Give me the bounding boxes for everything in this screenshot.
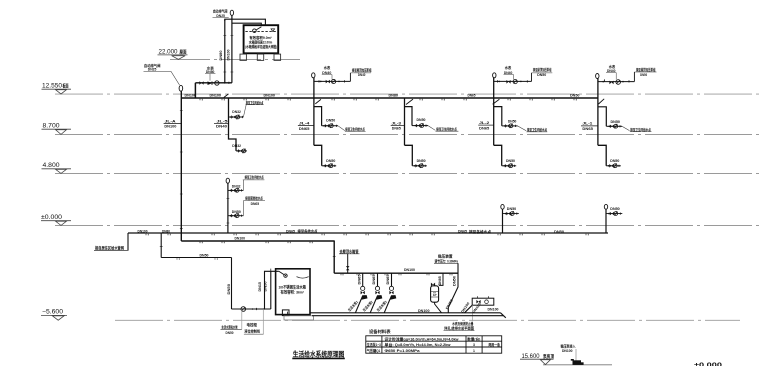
- JL-4 lower branch: [322, 165, 337, 167]
- drain diagonal: [435, 302, 442, 313]
- svg-text:1: 1: [473, 349, 475, 353]
- water level: [297, 277, 309, 279]
- svg-text:22.000: 22.000: [159, 49, 179, 55]
- svg-text:接至卫生间给水点: 接至卫生间给水点: [526, 127, 547, 132]
- JL-1 lower branch: [606, 165, 621, 167]
- svg-text:DN65: DN65: [438, 276, 442, 285]
- elbow down to main: [194, 83, 196, 98]
- gate valve: [199, 81, 203, 85]
- svg-text:DN50: DN50: [417, 118, 426, 122]
- valve on basement line: [241, 307, 246, 312]
- svg-text:JL-2: JL-2: [479, 120, 490, 125]
- air vent circle JL-2: [493, 73, 496, 78]
- stub 2 branch: [606, 213, 622, 215]
- junction dot: [224, 82, 226, 84]
- svg-text:DN40: DN40: [358, 73, 366, 77]
- butterfly valve circle: [215, 81, 219, 85]
- fixtures label JL-2: [518, 126, 527, 131]
- svg-text:DN65: DN65: [386, 274, 390, 284]
- svg-text:电控柜: 电控柜: [247, 322, 258, 327]
- svg-text:接至各给水点: 接至各给水点: [468, 229, 491, 234]
- svg-text:生活水泵吸水管: 生活水泵吸水管: [222, 325, 238, 330]
- JL-2 lower jog: [494, 145, 502, 166]
- elevation -5.600: [41, 310, 67, 321]
- JL-2 upper branch jog: [494, 107, 502, 126]
- svg-text:稳压泵接入: 稳压泵接入: [561, 344, 576, 349]
- svg-text:12.550: 12.550: [42, 83, 63, 89]
- svg-text:DN100: DN100: [138, 228, 148, 233]
- tee diagonal JL-3: [406, 99, 413, 104]
- small pump block: [573, 360, 582, 365]
- svg-text:接至屋顶加压泵组: 接至屋顶加压泵组: [351, 67, 371, 72]
- svg-text:水箱底标高22.00m: 水箱底标高22.00m: [248, 39, 273, 44]
- basement horizontal: [232, 308, 271, 310]
- svg-text:DN100: DN100: [164, 124, 176, 129]
- svg-text:DN65: DN65: [286, 228, 296, 233]
- joint ticks on main: [200, 99, 576, 101]
- air vent label DN25: [213, 8, 228, 18]
- tank text: [279, 285, 306, 295]
- assembly left label: [504, 65, 513, 75]
- tall stub branch 1: [228, 189, 244, 191]
- svg-text:设备材料表: 设备材料表: [369, 329, 391, 334]
- svg-text:水表: 水表: [504, 65, 512, 70]
- svg-text:DN100: DN100: [404, 268, 415, 272]
- meter box: [472, 298, 494, 305]
- tall stub riser near JL-5: [227, 183, 229, 233]
- svg-text:(水箱规格详见结施大样图): (水箱规格详见结施大样图): [245, 44, 277, 49]
- svg-text:−5.600: −5.600: [42, 310, 64, 316]
- inlet diagonal: [465, 305, 473, 313]
- svg-text:DN100: DN100: [488, 308, 499, 312]
- joint marks on JL-A: [180, 111, 183, 229]
- svg-text:DN100: DN100: [185, 92, 197, 97]
- valves on assembly: [318, 80, 320, 82]
- JL-A riser pipe: [180, 91, 182, 241]
- tank inlet pipe double line: [225, 19, 266, 25]
- svg-text:水表: 水表: [323, 65, 331, 70]
- svg-text:DN65: DN65: [392, 126, 402, 131]
- air vent circle JL-1: [596, 74, 599, 79]
- tank text: [245, 35, 277, 49]
- svg-text:DN50: DN50: [611, 120, 621, 124]
- joint marks: [227, 199, 230, 224]
- roof tank body: [244, 25, 279, 53]
- svg-text:接自居住区给水管网: 接自居住区给水管网: [95, 244, 124, 250]
- joint marks: [223, 36, 233, 73]
- vent label JL-A: [144, 63, 161, 72]
- svg-text:DN50: DN50: [326, 159, 335, 163]
- svg-text:生活给水系统原理图: 生活给水系统原理图: [293, 349, 345, 358]
- svg-text:DN65: DN65: [299, 126, 310, 131]
- svg-text:DN100: DN100: [418, 309, 430, 313]
- JL-1 rooftop assembly pipe: [598, 81, 635, 83]
- branch to roof tank: [347, 254, 349, 273]
- svg-text:DN65: DN65: [251, 202, 260, 206]
- svg-text:DN32: DN32: [232, 110, 241, 114]
- svg-text:8.700: 8.700: [43, 123, 61, 129]
- leader down: [472, 305, 474, 321]
- svg-text:数量(台): 数量(台): [466, 336, 480, 341]
- elevation 4.800: [42, 163, 72, 173]
- svg-text:调节压力: 0.30MPa: 调节压力: 0.30MPa: [435, 258, 459, 263]
- tee diagonal JL-1: [599, 99, 605, 104]
- tank outlet pipe: [224, 19, 226, 83]
- svg-text:设计秒流量qg=16.0m³/h,H=64.0m,N=4.0: 设计秒流量qg=16.0m³/h,H=64.0m,N=4.0kw: [385, 336, 459, 341]
- float valve: [256, 27, 261, 30]
- elevation 22.000: [158, 48, 188, 59]
- JL-2 upper branch: [502, 125, 518, 127]
- svg-text:接至屋顶加压泵组: 接至屋顶加压泵组: [635, 67, 655, 72]
- svg-text:DN100: DN100: [210, 92, 222, 97]
- JL-4 lower jog: [314, 145, 322, 166]
- level line -5.600: [115, 319, 740, 321]
- water level marker: [271, 29, 275, 32]
- svg-text:DN50: DN50: [640, 73, 647, 77]
- tank water level dashed: [245, 31, 276, 33]
- svg-text:去屋顶水箱管: 去屋顶水箱管: [340, 249, 359, 254]
- svg-text:有效容积9.0m³: 有效容积9.0m³: [249, 35, 272, 40]
- JL-1 upper branch: [606, 125, 622, 127]
- svg-text:DN100: DN100: [226, 49, 230, 60]
- svg-text:DN50: DN50: [508, 119, 517, 123]
- svg-text:接至卫生间给水点: 接至卫生间给水点: [630, 127, 651, 132]
- svg-text:DN100: DN100: [562, 349, 573, 353]
- small valve above: [431, 283, 435, 287]
- level line 0.000: [55, 225, 760, 227]
- pump 2: [361, 273, 382, 313]
- assembly left label: [607, 64, 616, 73]
- JL-1 lower jog: [598, 145, 606, 166]
- JL-4 upper branch: [322, 125, 338, 127]
- air vent on tank pipe: [230, 10, 233, 15]
- valve label: [206, 65, 215, 74]
- second riser: [270, 271, 272, 309]
- svg-text:Φ650 P=1.00MPa: Φ650 P=1.00MPa: [385, 349, 420, 353]
- elevation 8.700: [42, 123, 72, 134]
- svg-text:DN40: DN40: [504, 71, 513, 75]
- svg-text:DN65: DN65: [582, 126, 593, 131]
- svg-text:±0.000: ±0.000: [41, 215, 63, 221]
- svg-text:DN40: DN40: [607, 69, 616, 73]
- svg-text:接至卫生间给水点: 接至卫生间给水点: [244, 175, 264, 180]
- svg-text:DN25: DN25: [148, 68, 157, 72]
- stub riser 2: [605, 209, 607, 233]
- air vent stub 2: [604, 204, 607, 209]
- pump header: [334, 272, 458, 274]
- JL-4 rooftop assembly pipe: [314, 80, 351, 82]
- svg-text:DN40: DN40: [216, 124, 227, 129]
- tee diagonal JL-4: [315, 99, 321, 104]
- JL-3 lower branch: [412, 165, 427, 167]
- drop to basement: [231, 258, 233, 310]
- JL-3 lower jog: [405, 145, 413, 166]
- air vent stub 1: [501, 204, 504, 209]
- pressure vessel: [431, 286, 439, 302]
- svg-text:两用一备: 两用一备: [489, 342, 501, 347]
- svg-text:DN50: DN50: [610, 159, 619, 163]
- svg-text:液位控制线: 液位控制线: [244, 329, 260, 334]
- svg-text:水表及倒流防止器: 水表及倒流防止器: [452, 321, 474, 326]
- level line 4.800: [55, 173, 760, 175]
- svg-text:DN32: DN32: [232, 185, 241, 189]
- air vent tall stub: [226, 178, 229, 183]
- svg-text:DN80: DN80: [219, 50, 223, 60]
- tee diagonal JL-2: [493, 99, 500, 104]
- svg-text:DN50: DN50: [507, 207, 516, 211]
- check valve: [208, 81, 213, 85]
- elevation 15.600: [520, 353, 554, 365]
- leader to fixtures label: [243, 105, 246, 117]
- branch horizontal: [161, 257, 231, 259]
- svg-text:DN65: DN65: [372, 274, 376, 284]
- joint ticks mainB: [146, 234, 588, 236]
- elevation 0.000: [41, 215, 71, 226]
- svg-text:接至屋顶加压泵组: 接至屋顶加压泵组: [532, 67, 551, 72]
- inlet drop: [127, 233, 129, 250]
- fixtures label JL-3: [428, 126, 435, 131]
- main pipe at 0.000: [128, 232, 608, 234]
- svg-text:DN40: DN40: [322, 71, 331, 75]
- tank legs: [240, 54, 281, 60]
- svg-text:DN50: DN50: [570, 92, 580, 97]
- JL-1 riser pipe: [597, 78, 599, 145]
- svg-text:单台: Q=8.0m³/h, H=44.0m, N=2.2k: 单台: Q=8.0m³/h, H=44.0m, N=2.2kw: [385, 342, 451, 347]
- air vent circle JL-4: [312, 73, 315, 78]
- meter label below floor: [444, 321, 474, 331]
- JL-3 riser pipe: [404, 98, 406, 145]
- svg-text:4.800: 4.800: [43, 163, 61, 169]
- svg-text:生活泵1~3: 生活泵1~3: [367, 342, 381, 347]
- tank outlet box: [282, 310, 289, 316]
- svg-text:接至卫生间给水点: 接至卫生间给水点: [345, 127, 365, 132]
- branch 1 label: [242, 180, 244, 191]
- elevation 12.550: [42, 82, 72, 94]
- labels mainB: [138, 228, 565, 234]
- float inlet riser: [265, 271, 279, 309]
- svg-text:DN50: DN50: [264, 281, 268, 291]
- svg-text:板面: 板面: [63, 82, 69, 89]
- JL-3 upper branch jog: [405, 107, 413, 126]
- svg-text:DN50: DN50: [506, 159, 515, 163]
- LEVEL LINES: [55, 60, 760, 365]
- svg-text:DN80: DN80: [206, 70, 215, 74]
- level line 8.700: [55, 134, 760, 136]
- svg-text:DN50: DN50: [610, 207, 619, 211]
- fixtures label JL-1: [622, 126, 630, 130]
- JL-4 riser pipe: [313, 78, 315, 146]
- elbow down: [333, 241, 335, 273]
- svg-text:3: 3: [473, 343, 475, 347]
- svg-text:接至厨房给水点: 接至厨房给水点: [245, 196, 263, 201]
- ELEVATION MARKERS: [41, 48, 554, 364]
- svg-text:接至卫生间给水点: 接至卫生间给水点: [436, 127, 457, 132]
- assembly horizontal pipe: [195, 82, 232, 84]
- tank pedestal: [284, 316, 314, 320]
- JL-5 upper branch: [229, 116, 244, 118]
- svg-text:DN50: DN50: [453, 276, 457, 286]
- level line 15.600: [543, 364, 612, 366]
- pipe labels on main: [185, 92, 580, 97]
- stub 1 branch: [503, 213, 519, 215]
- JL-2 rooftop assembly pipe: [494, 80, 532, 82]
- detail label: [561, 344, 576, 354]
- svg-text:DN50: DN50: [537, 73, 546, 77]
- JL-3 upper branch: [412, 125, 428, 127]
- svg-text:JL-1: JL-1: [582, 121, 593, 126]
- svg-text:DN65: DN65: [468, 92, 477, 97]
- svg-text:DN65: DN65: [479, 126, 490, 131]
- svg-text:接至各给水点: 接至各给水点: [297, 229, 318, 234]
- svg-text:DN50: DN50: [200, 254, 209, 258]
- tee drop: [160, 233, 162, 258]
- level line 22.000: [170, 59, 300, 61]
- branch 2 label: [242, 201, 244, 216]
- svg-text:DN65: DN65: [458, 229, 468, 234]
- svg-text:DN25: DN25: [216, 14, 225, 18]
- svg-text:DN100: DN100: [264, 92, 276, 97]
- svg-text:自动排气阀: 自动排气阀: [213, 8, 228, 13]
- JL-2 lower branch: [502, 165, 517, 167]
- svg-text:DN50: DN50: [232, 210, 241, 214]
- svg-text:气压罐Q1: 气压罐Q1: [367, 348, 381, 353]
- tee diagonal JL-5: [224, 94, 229, 98]
- svg-text:DN65: DN65: [357, 274, 361, 284]
- svg-text:详见,给排水总平面图: 详见,给排水总平面图: [444, 326, 474, 331]
- stub riser 1: [502, 209, 504, 233]
- svg-text:DN100: DN100: [235, 235, 246, 240]
- svg-text:Q1: Q1: [432, 292, 436, 296]
- header end drop: [448, 263, 458, 313]
- JL-5 riser pipe: [229, 98, 237, 151]
- svg-text:接至卫生间给水点: 接至卫生间给水点: [245, 100, 263, 105]
- svg-text:DN50: DN50: [227, 284, 231, 295]
- svg-text:DN50: DN50: [417, 159, 426, 163]
- pump 1: [347, 273, 368, 313]
- svg-text:DN50: DN50: [226, 331, 234, 335]
- tick: [228, 82, 230, 84]
- basement tank body: [276, 269, 310, 315]
- tank inlet riser: [231, 15, 233, 83]
- pump 3: [375, 273, 396, 313]
- JL-5 lower branch: [236, 150, 247, 152]
- level line 12.550: [55, 93, 760, 95]
- JL-2 riser pipe: [493, 78, 495, 146]
- suction labels below floor: [241, 309, 243, 329]
- svg-text:DN50: DN50: [554, 229, 564, 234]
- main pipe DN100 at 12.550: [181, 97, 598, 99]
- svg-text:DN15: DN15: [258, 282, 262, 292]
- svg-text:DN32: DN32: [232, 144, 241, 148]
- svg-text:DN50: DN50: [326, 119, 335, 123]
- JL-1 upper branch jog: [598, 107, 606, 127]
- svg-text:有效容积: 36m³: 有效容积: 36m³: [281, 290, 305, 295]
- svg-text:屋面: 屋面: [180, 48, 187, 55]
- feed pipe: [439, 273, 443, 285]
- JL-4 upper branch jog: [314, 107, 322, 126]
- svg-text:稳压装置: 稳压装置: [438, 254, 453, 259]
- discharge main: [181, 240, 334, 242]
- svg-text:DN80: DN80: [389, 92, 399, 97]
- tall stub branch 2: [228, 215, 244, 217]
- assembly left label: [322, 65, 331, 75]
- air vent circle JL-A: [179, 85, 183, 91]
- svg-text:DN80: DN80: [162, 228, 170, 233]
- fixtures label JL-4: [338, 126, 345, 131]
